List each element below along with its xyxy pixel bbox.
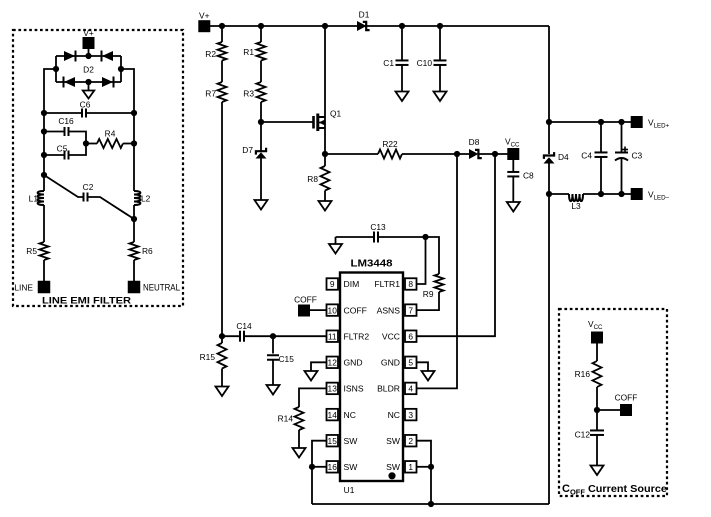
wire Q1 drain xyxy=(324,26,326,128)
wire L2 to R6 xyxy=(133,205,135,242)
D2 diode bottom-left xyxy=(64,77,76,88)
wire Q1 source xyxy=(324,128,326,154)
svg-text:C10: C10 xyxy=(417,58,433,68)
node C6 left xyxy=(41,110,47,116)
svg-text:C13: C13 xyxy=(370,222,386,232)
svg-text:C6: C6 xyxy=(80,100,91,110)
wire R16 to C12 xyxy=(596,387,598,431)
node bridge right xyxy=(118,66,124,72)
svg-text:NEUTRAL: NEUTRAL xyxy=(143,283,180,293)
pin 12 GND xyxy=(327,357,363,369)
wire R7 down to FLTR2 node xyxy=(221,102,223,336)
svg-text:NC: NC xyxy=(388,410,400,420)
wire top rail corner down xyxy=(548,26,550,154)
capacitor C1 xyxy=(383,26,408,92)
svg-text:14: 14 xyxy=(328,410,338,420)
pin 9 DIM xyxy=(327,278,360,290)
wire D8 to VCC terminal xyxy=(479,153,508,155)
terminal COFF (pin 10) xyxy=(294,295,326,317)
resistor R15 xyxy=(200,336,227,386)
wire R6 to NEUTRAL xyxy=(133,260,135,281)
capacitor C10 xyxy=(417,26,447,92)
pin 7 ASNS xyxy=(377,304,417,316)
capacitor C15 xyxy=(267,336,294,385)
wire L1 to R5 xyxy=(43,205,45,242)
svg-text:1: 1 xyxy=(408,462,413,472)
svg-text:9: 9 xyxy=(330,279,335,289)
D2 diode bottom-right xyxy=(102,77,114,88)
svg-text:7: 7 xyxy=(408,305,413,315)
svg-text:D7: D7 xyxy=(242,145,253,155)
wire FLTR1 xyxy=(417,237,426,284)
svg-text:C16: C16 xyxy=(58,116,74,126)
svg-text:8: 8 xyxy=(408,279,413,289)
wire VCC to R16 xyxy=(596,344,598,362)
ground (R14) xyxy=(293,448,306,458)
wire pin 12 GND xyxy=(311,362,327,371)
zener D7 xyxy=(242,145,266,159)
label LINE EMI FILTER xyxy=(42,296,131,307)
terminal V+ (main input) xyxy=(198,11,210,33)
op-amp U1 LM3448 body xyxy=(340,258,403,496)
svg-text:U1: U1 xyxy=(344,485,355,495)
svg-text:R16: R16 xyxy=(575,369,591,379)
svg-text:DIM: DIM xyxy=(344,279,360,289)
svg-text:R1: R1 xyxy=(243,47,254,57)
svg-text:3: 3 xyxy=(408,410,413,420)
pin 11 FLTR2 xyxy=(327,330,370,342)
node C1 top xyxy=(399,23,405,29)
svg-text:D8: D8 xyxy=(469,137,480,147)
ground (C12) xyxy=(591,466,604,476)
pin 3 NC xyxy=(388,409,417,421)
svg-text:L2: L2 xyxy=(141,194,151,204)
svg-text:4: 4 xyxy=(408,384,413,394)
capacitor C13 xyxy=(336,222,426,244)
wire VLED+ row xyxy=(549,121,631,123)
node LED- rail xyxy=(546,191,552,197)
svg-text:15: 15 xyxy=(328,436,338,446)
ground (pin 12) xyxy=(305,371,318,381)
svg-text:NC: NC xyxy=(344,410,356,420)
node L1 top / C2 tap xyxy=(41,172,47,178)
svg-text:R9: R9 xyxy=(423,289,434,299)
pin 14 NC xyxy=(327,409,356,421)
wire R3 to D7 xyxy=(260,102,262,151)
pin 1 marker dot xyxy=(388,472,395,479)
svg-text:C15: C15 xyxy=(279,354,295,364)
node Q1 source / R8 / R22 xyxy=(322,151,328,157)
wire rail below D4 xyxy=(548,164,550,505)
node C15 tap xyxy=(270,333,276,339)
node R1 top xyxy=(258,23,264,29)
svg-text:SW: SW xyxy=(344,462,359,472)
svg-text:SW: SW xyxy=(344,436,359,446)
pin 16 SW xyxy=(327,461,359,473)
D2 diode top-left xyxy=(64,51,76,62)
svg-text:C14: C14 xyxy=(236,321,252,331)
resistor R16 xyxy=(575,361,602,387)
resistor R22 xyxy=(325,139,469,159)
svg-text:R8: R8 xyxy=(307,174,318,184)
pin 8 FLTR1 xyxy=(374,278,416,290)
node VCC drop xyxy=(492,151,498,157)
ground (C10) xyxy=(434,92,447,102)
zener D4 xyxy=(544,152,570,164)
svg-text:COFF: COFF xyxy=(294,295,317,305)
pin 15 SW xyxy=(327,435,359,447)
svg-text:COFF Current Source: COFF Current Source xyxy=(562,483,667,497)
terminal VCC (current source) xyxy=(588,319,603,344)
svg-text:C1: C1 xyxy=(383,58,394,68)
svg-text:L1: L1 xyxy=(29,194,39,204)
svg-text:16: 16 xyxy=(328,462,338,472)
resistor R4 xyxy=(86,129,134,149)
terminal VLED- xyxy=(631,188,670,202)
capacitor C5 xyxy=(44,144,86,160)
node Q1 gate junction xyxy=(258,119,264,125)
wire gate xyxy=(261,121,313,123)
node C3 bottom xyxy=(618,191,624,197)
resistor R8 xyxy=(307,154,329,201)
resistor R9 xyxy=(417,237,444,310)
resistor R6 xyxy=(130,242,154,260)
wire pin 15 SW to bottom rail xyxy=(312,441,327,504)
svg-text:R7: R7 xyxy=(205,89,216,99)
node C16 left xyxy=(41,128,47,134)
resistor R3 xyxy=(243,61,265,103)
resistor R5 xyxy=(26,242,48,260)
svg-text:R6: R6 xyxy=(142,246,153,256)
wire bridge bottom to ground xyxy=(88,82,90,91)
svg-text:VCC: VCC xyxy=(588,319,603,331)
node C10 top xyxy=(437,23,443,29)
svg-text:R2: R2 xyxy=(205,49,216,59)
wire to COFF terminal xyxy=(597,409,620,411)
terminal VLED+ xyxy=(631,116,670,130)
capacitor C16 xyxy=(44,116,86,144)
svg-text:C5: C5 xyxy=(57,144,68,154)
capacitor C8 xyxy=(507,160,534,202)
svg-text:ISNS: ISNS xyxy=(344,384,364,394)
ground (C15) xyxy=(267,385,280,395)
ground (R15) xyxy=(216,387,229,397)
D2 diode top-right xyxy=(102,51,114,62)
svg-text:C3: C3 xyxy=(632,151,643,161)
svg-text:D4: D4 xyxy=(558,152,569,162)
svg-text:13: 13 xyxy=(328,384,338,394)
svg-text:R4: R4 xyxy=(105,129,116,139)
svg-text:R15: R15 xyxy=(200,352,216,362)
diode D1 (schottky) xyxy=(357,10,370,32)
node bridge bottom xyxy=(85,79,91,85)
node BLDR tap xyxy=(454,151,460,157)
capacitor C14 xyxy=(222,321,327,342)
resistor R2 xyxy=(205,26,226,61)
terminal COFF (source) xyxy=(615,393,638,417)
node bridge left xyxy=(53,66,59,72)
node C3 top xyxy=(618,119,624,125)
wire top rail V+ xyxy=(210,25,549,27)
svg-text:FLTR1: FLTR1 xyxy=(374,279,400,289)
inductor L3 xyxy=(569,194,583,211)
wire pin 13 ISNS xyxy=(299,388,327,407)
svg-text:C8: C8 xyxy=(523,171,534,181)
COFF Current Source enclosure xyxy=(559,309,667,496)
pin 4 BLDR xyxy=(377,383,416,395)
svg-text:C2: C2 xyxy=(83,182,94,192)
wire bridge right to right bus xyxy=(121,69,134,191)
node pin1 junction xyxy=(428,464,434,470)
terminal NEUTRAL xyxy=(128,281,180,294)
wire D7 to ground xyxy=(260,159,262,201)
wire bottom rail xyxy=(312,503,549,505)
node bridge top (V+) xyxy=(85,53,91,59)
terminal V+ (EMI filter output) xyxy=(83,28,95,49)
svg-text:GND: GND xyxy=(381,358,400,368)
wire BLDR drop xyxy=(417,154,457,388)
ground (bridge) xyxy=(83,91,95,99)
svg-text:10: 10 xyxy=(328,305,338,315)
svg-text:VLED+: VLED+ xyxy=(648,118,670,130)
node C4 top xyxy=(598,119,604,125)
svg-text:LINE EMI FILTER: LINE EMI FILTER xyxy=(42,296,131,307)
pin 6 VCC xyxy=(382,330,417,342)
wire V+ to bridge xyxy=(88,49,90,56)
node C2 to L2 bottom xyxy=(131,216,137,222)
ground (C8) xyxy=(507,202,520,212)
svg-text:R22: R22 xyxy=(382,139,398,149)
wire pin 16 SW xyxy=(312,466,327,468)
wire pin 2 SW down xyxy=(417,441,432,504)
node COFF tap xyxy=(594,407,600,413)
svg-text:L3: L3 xyxy=(571,201,581,211)
pin 10 COFF xyxy=(327,304,367,316)
svg-text:LINE: LINE xyxy=(14,283,33,293)
wire pin 1 SW xyxy=(417,466,432,468)
svg-text:VCC: VCC xyxy=(505,137,520,149)
svg-text:VCC: VCC xyxy=(382,331,400,341)
svg-text:D2: D2 xyxy=(83,65,94,75)
svg-text:LM3448: LM3448 xyxy=(351,258,393,270)
svg-text:12: 12 xyxy=(328,358,338,368)
node C6 right xyxy=(131,110,137,116)
node C4 bottom xyxy=(598,191,604,197)
node C16/C5/R4 junction xyxy=(83,140,89,146)
svg-text:R3: R3 xyxy=(243,89,254,99)
node C14 left (R15) xyxy=(219,333,225,339)
transistor Q1 xyxy=(314,109,342,132)
svg-text:ASNS: ASNS xyxy=(377,305,401,315)
node FLTR1/R9 junction xyxy=(422,234,428,240)
wire bridge left to left bus xyxy=(44,69,56,191)
bridge rectifier D2 frame xyxy=(56,56,121,82)
svg-text:C4: C4 xyxy=(581,151,592,161)
terminal LINE xyxy=(14,281,50,294)
ground (pin 5) xyxy=(422,371,435,381)
inductor L2 xyxy=(134,191,151,205)
node R4 right xyxy=(131,140,137,146)
node C5 left xyxy=(41,152,47,158)
inductor L1 xyxy=(29,191,44,205)
svg-text:COFF: COFF xyxy=(344,305,367,315)
ground (C13) xyxy=(329,244,342,254)
wire VLED- row xyxy=(549,193,631,195)
svg-text:5: 5 xyxy=(408,358,413,368)
resistor R1 xyxy=(243,26,265,61)
wire R5 to LINE xyxy=(43,260,45,281)
LINE EMI FILTER enclosure xyxy=(13,30,183,306)
diode D8 (schottky) xyxy=(469,137,482,159)
resistor R14 xyxy=(278,407,304,448)
terminal VCC xyxy=(505,137,520,161)
svg-text:6: 6 xyxy=(408,331,413,341)
capacitor C4 xyxy=(581,122,607,194)
node Q1 drain top xyxy=(322,23,328,29)
node pin16 junction xyxy=(309,464,315,470)
capacitor C6 xyxy=(44,100,134,118)
capacitor C2 diagonal link xyxy=(44,175,134,219)
pin 13 ISNS xyxy=(327,383,364,395)
svg-text:VLED–: VLED– xyxy=(648,190,670,202)
node R2 top xyxy=(219,23,225,29)
label COFF Current Source xyxy=(562,483,667,497)
svg-text:Q1: Q1 xyxy=(330,109,342,119)
svg-text:BLDR: BLDR xyxy=(377,384,400,394)
svg-text:2: 2 xyxy=(408,436,413,446)
capacitor C12 xyxy=(575,430,604,466)
svg-text:C12: C12 xyxy=(575,430,591,440)
node LED+ rail xyxy=(546,119,552,125)
svg-text:D1: D1 xyxy=(359,10,370,20)
resistor R7 xyxy=(205,61,226,103)
svg-text:GND: GND xyxy=(344,358,363,368)
ground (D7) xyxy=(255,200,268,210)
node bottom rail junction xyxy=(428,501,434,507)
wire VCC drop to pin 6 xyxy=(417,154,495,336)
ground (R8) xyxy=(319,201,332,211)
svg-text:FLTR2: FLTR2 xyxy=(344,331,370,341)
svg-text:SW: SW xyxy=(386,436,401,446)
ground (C1) xyxy=(396,92,409,102)
svg-text:COFF: COFF xyxy=(615,393,638,403)
svg-text:V+: V+ xyxy=(199,11,210,21)
pin 1 SW xyxy=(386,461,416,473)
pin 2 SW xyxy=(386,435,416,447)
capacitor C3 (electrolytic) xyxy=(615,122,643,194)
pin 5 GND xyxy=(381,357,417,369)
svg-text:V+: V+ xyxy=(83,28,94,38)
svg-text:R5: R5 xyxy=(26,246,37,256)
svg-text:SW: SW xyxy=(386,462,401,472)
svg-text:11: 11 xyxy=(328,331,337,341)
svg-text:R14: R14 xyxy=(278,414,294,424)
wire pin 5 GND xyxy=(417,362,429,371)
